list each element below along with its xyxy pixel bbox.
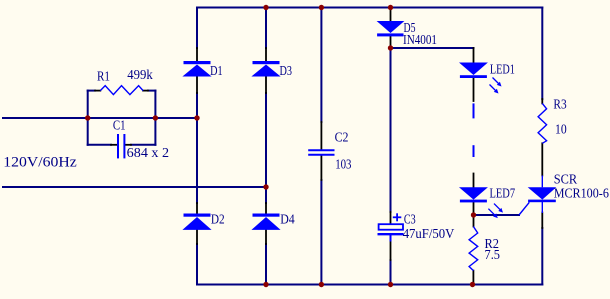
svg-text:SCR: SCR <box>554 171 577 186</box>
svg-text:499k: 499k <box>127 67 153 82</box>
svg-text:D4: D4 <box>280 212 295 227</box>
svg-text:D1: D1 <box>210 63 223 78</box>
svg-text:R3: R3 <box>553 96 567 111</box>
svg-text:MCR100-6: MCR100-6 <box>554 185 609 200</box>
svg-text:7.5: 7.5 <box>485 247 501 262</box>
svg-text:D3: D3 <box>280 63 293 78</box>
svg-text:10: 10 <box>555 122 567 137</box>
svg-text:IN4001: IN4001 <box>403 32 437 47</box>
svg-text:LED1: LED1 <box>490 62 515 77</box>
svg-text:D2: D2 <box>211 212 225 227</box>
svg-text:C1: C1 <box>113 118 126 133</box>
svg-text:120V/60Hz: 120V/60Hz <box>3 154 77 170</box>
svg-text:C2: C2 <box>335 130 349 145</box>
svg-text:684 x 2: 684 x 2 <box>127 145 169 160</box>
svg-text:LED7: LED7 <box>490 185 516 200</box>
svg-text:103: 103 <box>335 157 352 172</box>
svg-text:R1: R1 <box>97 69 110 84</box>
svg-text:47uF/50V: 47uF/50V <box>403 226 455 241</box>
svg-text:C3: C3 <box>404 212 416 227</box>
